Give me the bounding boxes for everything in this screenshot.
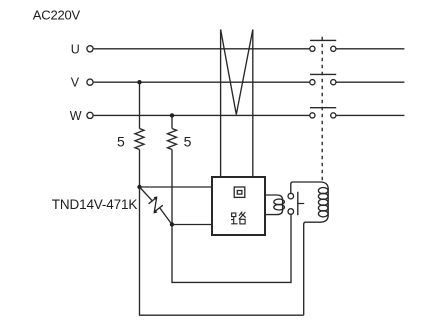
contactor coil MC outline bbox=[304, 182, 329, 315]
wire from V bus down to resistor R1 bbox=[139, 82, 141, 128]
contactor coil MC loop 3 bbox=[318, 199, 328, 205]
svg-text:5: 5 bbox=[184, 134, 192, 150]
wire from W bus down to resistor R2 bbox=[171, 115, 173, 128]
svg-text:TND14V-471K: TND14V-471K bbox=[52, 197, 138, 212]
wire V out bbox=[336, 81, 404, 83]
wire R1 bottom to varistor node bbox=[139, 150, 141, 188]
varistor arrowhead bottom bbox=[153, 209, 157, 213]
varistor TND14V-471K diagonal bottom bbox=[160, 208, 172, 224]
varistor TND14V-471K arrow zigzag bbox=[149, 198, 163, 213]
contactor main contact U bar bbox=[310, 39, 336, 41]
contactor coil MC loop 1 bbox=[318, 188, 328, 194]
terminal W bbox=[87, 112, 93, 118]
contactor main contact V left circle bbox=[310, 80, 315, 85]
node varistor top bbox=[137, 185, 141, 189]
wire varistor bottom to circuit box bbox=[172, 224, 212, 226]
svg-text:U: U bbox=[71, 42, 80, 56]
wire relay coil top lead bbox=[265, 195, 283, 215]
contactor main contact V bar bbox=[310, 73, 336, 75]
wire W bus bbox=[94, 114, 310, 116]
resistor R1 bbox=[135, 129, 144, 150]
svg-text:V: V bbox=[71, 76, 80, 90]
varistor TND14V-471K diagonal top bbox=[140, 187, 153, 201]
varistor arrowhead top bbox=[154, 196, 158, 200]
contactor main contact V right circle bbox=[331, 80, 336, 85]
circuit box U1 bbox=[212, 177, 265, 235]
relay contact bar bbox=[298, 192, 304, 215]
label 回 (drawn) bbox=[234, 187, 245, 197]
relay contact circle top bbox=[288, 193, 294, 199]
wire R2 bottom to varistor lower node bbox=[171, 150, 173, 225]
relay contact circle bottom bbox=[288, 209, 294, 215]
heater element M symbol V diagonals bbox=[221, 30, 253, 115]
svg-text:W: W bbox=[70, 109, 82, 123]
wire varistor top to circuit box bbox=[140, 186, 213, 188]
wire U bus bbox=[94, 48, 310, 50]
contactor coil MC loop 4 bbox=[318, 205, 328, 211]
svg-text:5: 5 bbox=[117, 134, 125, 150]
relay coil K1 loop 2 bbox=[274, 204, 285, 210]
contactor main contact W bar bbox=[310, 107, 336, 109]
terminal V bbox=[87, 79, 93, 85]
wire W out bbox=[336, 114, 404, 116]
wire V bus bbox=[94, 81, 310, 83]
wire inner return loop (varistor bottom to relay contact) bbox=[172, 214, 291, 282]
contactor main contact W right circle bbox=[331, 113, 336, 118]
node on W bus bbox=[170, 113, 174, 117]
resistor R2 bbox=[168, 129, 177, 150]
mechanical link dashed line bbox=[321, 37, 323, 182]
wire U out bbox=[336, 48, 404, 50]
contactor coil MC loop 2 bbox=[318, 193, 328, 199]
terminal U bbox=[87, 46, 93, 52]
label 路 (drawn) bbox=[231, 212, 246, 224]
contactor main contact W left circle bbox=[310, 113, 315, 118]
wire outer return loop (varistor top to coil) bbox=[140, 187, 304, 315]
node varistor bottom bbox=[170, 222, 174, 226]
contactor main contact U right circle bbox=[331, 46, 336, 51]
wire relay contact top to contactor coil bbox=[291, 182, 320, 194]
node on V bus bbox=[137, 80, 141, 84]
contactor coil MC loop 5 bbox=[318, 211, 328, 217]
svg-text:AC220V: AC220V bbox=[33, 7, 81, 22]
heater element M symbol right vertical bbox=[252, 30, 254, 178]
relay coil K1 loop 1 bbox=[274, 199, 285, 205]
contactor main contact U left circle bbox=[310, 46, 315, 51]
heater element M symbol left vertical bbox=[220, 30, 222, 178]
